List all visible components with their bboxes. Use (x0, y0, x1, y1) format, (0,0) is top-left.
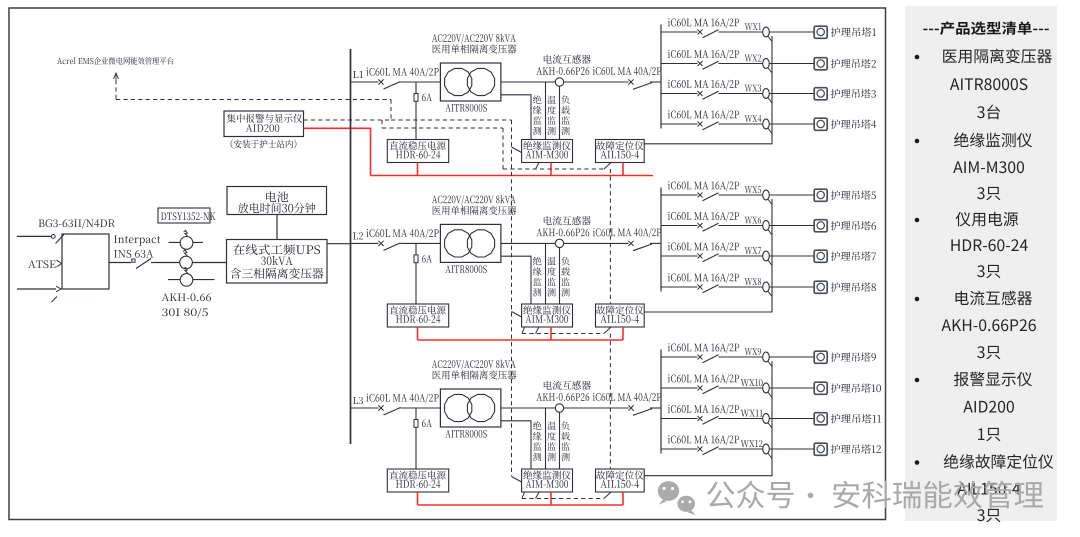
wire battery-UPS (276, 215, 278, 240)
breaker QF2b iC60L MA 40A/2P (564, 228, 662, 251)
label L2 feeder (353, 232, 363, 239)
wire mains input 1 (17, 235, 64, 244)
CT AKH-0.66P26 (L3) (536, 381, 590, 413)
fault locator AIL150-4 (L2) (596, 304, 645, 327)
label insulation monitoring (L1) (533, 95, 542, 135)
breaker WX5 iC60L MA 16A/2P (661, 181, 763, 201)
fuse 6A (L1) (414, 82, 432, 140)
outlet 护理吊塔8 (814, 281, 876, 293)
wire dashed platform downlink (116, 80, 391, 120)
outlet 护理吊塔10 (814, 382, 881, 394)
CT WX3 (763, 89, 772, 103)
wire branch WX8 to outlet (769, 286, 814, 288)
CT 1 AKH-0.66 30I 80/5 (169, 230, 204, 249)
CT 2 AKH-0.66 30I 80/5 (180, 250, 193, 269)
label L3 feeder (353, 397, 363, 404)
breaker WX8 iC60L MA 16A/2P (661, 273, 763, 293)
CT WX7 (763, 251, 772, 265)
outlet 护理吊塔2 (814, 58, 876, 70)
label transformer rating (L3) (432, 360, 517, 380)
breaker QF1b iC60L MA 40A/2P (564, 67, 662, 90)
wire red 24V supply bus (L3) (418, 492, 624, 505)
transformer T3 AITR8000S (440, 389, 501, 438)
wire CT signal collection (L1) (644, 36, 772, 144)
wire branch WX2 to outlet (769, 63, 814, 65)
CT WX9 (763, 352, 772, 366)
label insulation monitoring (L2) (533, 257, 542, 297)
monitoring tap lines (L1) (546, 82, 560, 140)
label insulation monitoring (L3) (533, 421, 542, 461)
switch QS1 Interpact INS 63A (109, 236, 227, 269)
breaker WX1 iC60L MA 16A/2P (661, 18, 763, 38)
power supply HDR-60-24 (L1) (387, 140, 448, 163)
outlet 护理吊塔7 (814, 250, 876, 262)
CT AKH-0.66P26 (L2) (536, 216, 590, 248)
wire branch WX1 to outlet (769, 31, 814, 33)
wire branch WX11 to outlet (769, 418, 814, 420)
fuse 6A (L3) (414, 408, 432, 469)
branch bus (L2) (660, 188, 662, 292)
CT WX11 (763, 414, 772, 428)
wire branch WX4 to outlet (769, 123, 814, 125)
power supply HDR-60-24 (L2) (387, 304, 448, 327)
wire dashed comm riser C (502, 128, 504, 169)
watermark wechat logo (658, 481, 696, 515)
breaker WX9 iC60L MA 16A/2P (661, 343, 763, 363)
insulation monitor AIM-M300 (L3) (522, 469, 573, 492)
branch bus (L3) (660, 350, 662, 454)
label AKH-0.66 30I 80/5 (162, 293, 211, 317)
wire branch WX10 to outlet (769, 387, 814, 389)
outlet 护理吊塔6 (814, 220, 876, 232)
label temperature monitoring (L3) (547, 421, 556, 461)
breaker QF3 iC60L MA 40A/2P (351, 394, 441, 415)
label L1 feeder (353, 71, 363, 78)
monitoring tap lines (L2) (546, 243, 560, 304)
wire transformer secondary (L3) (501, 408, 555, 469)
label BG3-63II/N4DR (39, 219, 115, 229)
wire UPS output (327, 243, 351, 245)
breaker WX11 iC60L MA 16A/2P (661, 405, 763, 425)
wire dashed comm (L3) (522, 492, 611, 499)
label temperature monitoring (L2) (547, 257, 556, 297)
wire branch WX3 to outlet (769, 93, 814, 95)
label load monitoring (L1) (561, 95, 570, 135)
wire red 24V supply bus (L1) (371, 163, 654, 176)
wire branch WX9 to outlet (769, 356, 814, 358)
monitoring tap lines (L3) (546, 408, 560, 469)
CT 3 AKH-0.66 30I 80/5 (168, 267, 215, 286)
alarm display unit AID200 (224, 111, 304, 137)
wire transformer secondary (L2) (501, 243, 555, 304)
breaker WX2 iC60L MA 16A/2P (661, 50, 763, 70)
arrow to platform (114, 73, 119, 80)
breaker WX6 iC60L MA 16A/2P (661, 212, 763, 232)
wire branch WX12 to outlet (769, 448, 814, 450)
CT WX12 (763, 444, 772, 458)
product selection list panel (905, 6, 1057, 522)
branch bus (L1) (660, 25, 662, 129)
fault locator AIL150-4 (L1) (596, 140, 645, 163)
CT WX8 (763, 282, 772, 296)
insulation monitor AIM-M300 (L1) (522, 140, 573, 163)
CT WX4 (763, 119, 772, 133)
insulation monitor AIM-M300 (L2) (522, 304, 573, 327)
wire mains input 2 (17, 286, 61, 302)
wire dashed comm riser to AIM units (512, 120, 522, 482)
wire red AID200 supply (304, 128, 371, 175)
wire dashed comm (L1) (503, 163, 611, 170)
fault locator AIL150-4 (L3) (596, 469, 645, 492)
label load monitoring (L3) (561, 421, 570, 461)
label transformer rating (L2) (432, 195, 517, 215)
CT WX2 (763, 59, 772, 73)
wire red 24V supply bus (L2) (418, 327, 624, 340)
wire CT signal collection (L2) (644, 199, 772, 312)
fuse 6A (L2) (414, 243, 432, 304)
breaker WX10 iC60L MA 16A/2P (661, 374, 763, 394)
breaker WX4 iC60L MA 16A/2P (661, 110, 763, 130)
wire branch WX7 to outlet (769, 255, 814, 257)
bus main vertical (350, 49, 352, 444)
wire dashed AID200 comm (304, 120, 512, 128)
CT WX5 (763, 190, 772, 204)
transformer T1 AITR8000S (440, 63, 501, 112)
label load monitoring (L2) (561, 257, 570, 297)
wire CT signal collection (L3) (644, 361, 772, 476)
ATSE transfer switch (28, 234, 109, 289)
UPS 30kVA (227, 240, 328, 284)
watermark text (707, 481, 1043, 509)
CT AKH-0.66P26 (L1) (536, 55, 590, 87)
wire transformer secondary (L1) (501, 82, 555, 140)
outlet 护理吊塔3 (814, 88, 876, 100)
meter DTSY1352-NK (158, 208, 216, 223)
power supply HDR-60-24 (L3) (387, 469, 448, 492)
outlet 护理吊塔11 (814, 413, 881, 425)
label 安装于护士站内 (231, 140, 297, 149)
breaker WX3 iC60L MA 16A/2P (661, 80, 763, 100)
label temperature monitoring (L1) (547, 95, 556, 135)
EMS platform label (57, 57, 173, 65)
breaker QF1 iC60L MA 40A/2P (351, 68, 441, 89)
outlet 护理吊塔1 (814, 26, 876, 38)
outlet 护理吊塔9 (814, 351, 876, 363)
breaker QF2 iC60L MA 40A/2P (351, 229, 441, 250)
CT WX1 (763, 27, 772, 41)
CT WX10 (763, 383, 772, 397)
outlet 护理吊塔4 (814, 118, 876, 130)
breaker QF3b iC60L MA 40A/2P (564, 393, 662, 416)
CT WX6 (763, 221, 772, 235)
outlet 护理吊塔12 (814, 443, 881, 455)
outlet 护理吊塔5 (814, 189, 876, 201)
wire branch WX5 to outlet (769, 194, 814, 196)
wire dashed comm riser to AIL units (609, 169, 611, 469)
breaker WX12 iC60L MA 16A/2P (661, 435, 763, 455)
wire branch WX6 to outlet (769, 225, 814, 227)
label transformer rating (L1) (432, 34, 517, 54)
transformer T2 AITR8000S (440, 224, 501, 273)
battery (227, 187, 327, 215)
wire dashed comm (L2) (522, 327, 611, 334)
breaker WX7 iC60L MA 16A/2P (661, 242, 763, 262)
